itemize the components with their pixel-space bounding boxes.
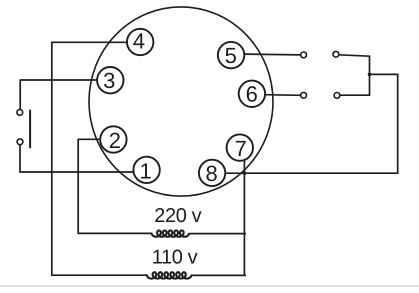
wire pin3 to upper terminal [20,80,97,109]
svg-text:220 v: 220 v [154,205,201,227]
svg-text:1: 1 [139,158,151,183]
switch blade bar [29,111,31,148]
switch S2 contact lower left [301,92,307,98]
svg-text:2: 2 [109,128,121,153]
pin 4 [127,29,153,55]
pin 7 [227,134,253,161]
220v line right segment [189,233,245,235]
svg-text:3: 3 [103,68,115,93]
switch link bar vertical [369,56,371,95]
svg-text:4: 4 [133,29,145,54]
pin 5 [218,42,244,68]
tube socket outline [89,7,273,196]
switch S2 contact lower right [334,93,340,99]
upper terminal contact [17,110,23,116]
pin 6 [239,81,265,107]
wire pin5 to switch contact [244,53,301,56]
switch S2 contact upper right [333,51,339,57]
wire pin4 to left rail and down [52,42,127,275]
pin 1 [133,157,159,184]
wire lower right contact to bar [340,94,370,96]
svg-text:6: 6 [246,82,258,107]
wire upper right contact to bar [339,55,370,56]
wire bar to right rail [370,73,398,75]
pin 8 [199,160,225,187]
wire pin7 down to windings [243,160,245,275]
svg-text:110 v: 110 v [152,246,198,268]
switch S2 contact upper left [301,52,307,58]
220v line left segment [78,232,151,234]
svg-text:5: 5 [225,43,237,68]
110v line left segment [52,274,147,276]
svg-text:7: 7 [235,136,247,161]
lower terminal contact [17,139,23,145]
junction pin7 cross [243,172,247,176]
wire pin2 to 220v rail [78,139,100,232]
wire pin6 to switch contact [265,94,301,97]
wire lower terminal to pin1 [20,145,134,172]
right rail vertical [397,74,399,173]
svg-text:8: 8 [205,161,217,186]
110v line right segment [191,274,245,276]
inductor 220v winding [152,230,190,236]
pin 3 [97,67,123,93]
wire pin8 to right rail [225,172,398,174]
inductor 110v winding [147,272,192,278]
pin 2 [100,126,126,153]
junction switch bar [368,73,372,77]
scan artifact band bottom [0,285,419,287]
